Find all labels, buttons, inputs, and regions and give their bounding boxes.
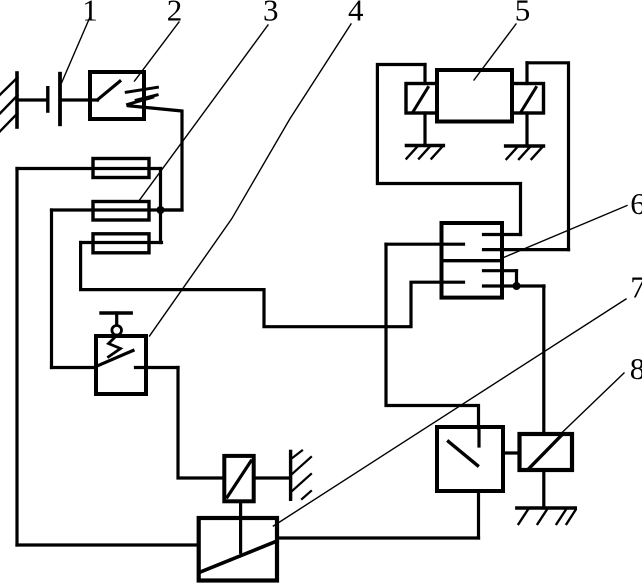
wire box2 down to fuse junction: [128, 106, 182, 210]
leader line 1: [62, 17, 91, 83]
pump 5 central body: [437, 70, 512, 122]
pump 5 right piston: [512, 84, 544, 114]
ground under left piston: [406, 146, 443, 159]
leader line 6: [504, 206, 627, 258]
left rail wire: [15, 169, 18, 546]
svg-text:2: 2: [167, 0, 183, 28]
wire left rail to box 7: [17, 543, 199, 546]
valve 6 body: [442, 223, 503, 298]
leader line 3: [139, 25, 268, 201]
switch box 7a: [437, 427, 503, 491]
solenoid 8: [520, 434, 573, 470]
wire valve4 to actuator B: [178, 368, 224, 479]
leader line 4: [150, 24, 352, 336]
pump 5 left piston: [406, 84, 437, 114]
svg-text:3: 3: [263, 0, 279, 28]
pump 5 left loop wire: [377, 65, 520, 235]
link actuator B to box 7: [239, 501, 242, 552]
wall anchor top-left: [0, 73, 17, 131]
battery plates (component 1): [48, 74, 60, 125]
wire valve6 to solenoid 8: [542, 286, 545, 434]
svg-text:8: 8: [630, 351, 642, 386]
svg-text:7: 7: [630, 270, 642, 305]
ground under right piston: [506, 146, 544, 159]
valve 4 body: [96, 336, 146, 394]
junction dot fuses: [157, 206, 165, 214]
wire solenoid 8 to ground: [542, 470, 545, 508]
wire switch box to solenoid 8: [503, 451, 520, 454]
wire box 7 to switch box: [277, 536, 479, 539]
box 7 master cylinder: [199, 518, 277, 581]
wire battery to box 2: [62, 98, 98, 101]
fuse F3: [81, 234, 162, 253]
wire switch box bottom: [477, 491, 480, 538]
wire fuse2 down to valve 4: [50, 210, 53, 368]
valve 4 left port wire: [52, 366, 97, 369]
wire wall to battery: [17, 98, 46, 101]
svg-text:5: 5: [515, 0, 531, 28]
ground under solenoid 8: [517, 508, 576, 524]
valve 4 contact diagonal: [99, 351, 133, 366]
valve 6 port stubs: [484, 235, 569, 288]
wire valve6 upper-left port to switch box top: [386, 244, 479, 428]
actuator box B: [224, 456, 253, 501]
fuse tie bar: [159, 169, 162, 243]
valve 4 spring: [109, 336, 121, 357]
valve 4 right port wire: [136, 366, 179, 369]
switch box 2: [90, 72, 157, 119]
wall anchor bottom middle: [291, 451, 311, 500]
pump 5 left piston wires: [423, 65, 426, 146]
leader line 5: [474, 24, 516, 80]
valve6 upper-left port stub: [386, 243, 464, 246]
fuse F1: [17, 159, 161, 178]
svg-text:1: 1: [82, 0, 98, 28]
valve 4 stem and knob: [101, 313, 131, 335]
leader line 8: [560, 373, 624, 435]
wire actuator B to wall: [254, 476, 290, 479]
leader line 7: [273, 299, 626, 526]
junction dot valve6: [513, 282, 521, 290]
leader line 2: [135, 22, 180, 81]
pump 5 right loop wire: [527, 63, 569, 250]
fuse F2: [52, 202, 183, 221]
wire fuse3 to valve6 lower-left port: [81, 243, 464, 327]
pump 5 right piston wires: [525, 63, 528, 146]
svg-text:6: 6: [630, 186, 642, 221]
svg-text:4: 4: [348, 0, 364, 28]
